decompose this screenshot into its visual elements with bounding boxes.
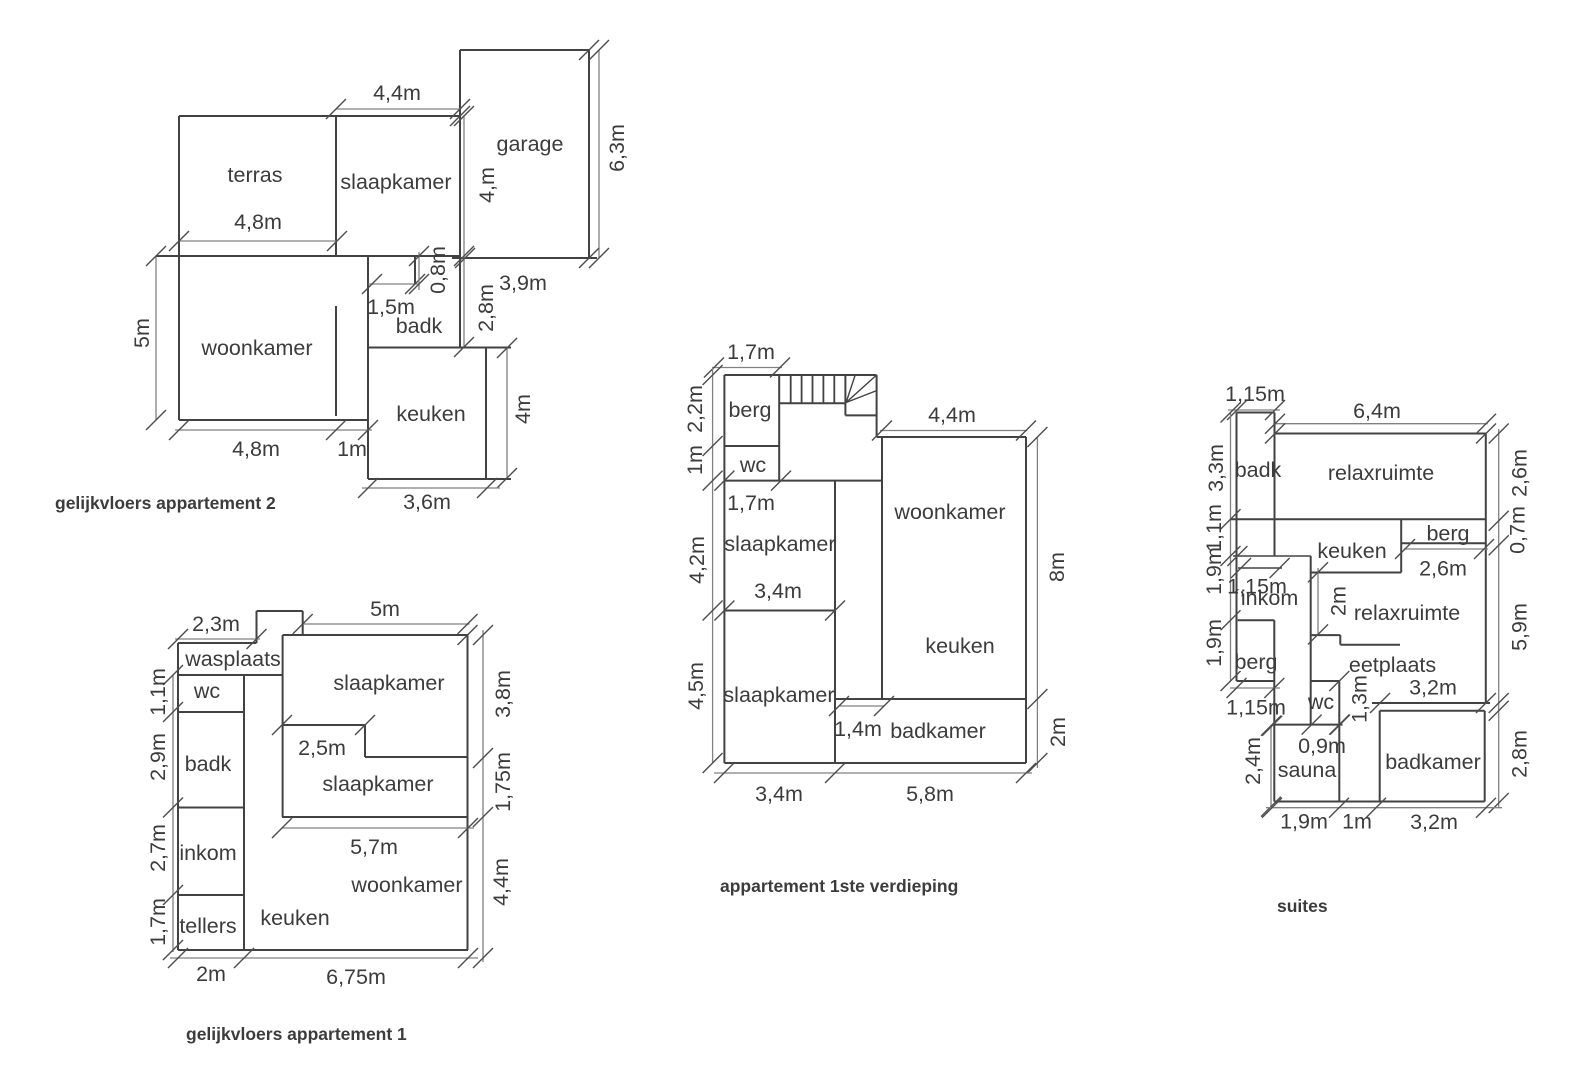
wall: wc top xyxy=(1311,680,1340,682)
svg-text:1,4m: 1,4m xyxy=(834,717,882,741)
svg-text:4,m: 4,m xyxy=(475,167,499,203)
svg-text:6,4m: 6,4m xyxy=(1353,399,1401,423)
wall: inkom bottom xyxy=(178,894,244,896)
wall: right outer wall xyxy=(467,635,469,950)
wall: inkom right / wc left xyxy=(1310,556,1312,725)
wall: keuken bottom xyxy=(368,478,511,480)
wall: keuken right / berg2 left xyxy=(1400,519,1402,572)
floor plan: suites xyxy=(1202,382,1532,916)
svg-text:keuken: keuken xyxy=(396,402,465,426)
wall: stair lower bottom xyxy=(845,414,876,416)
dimension line: 1,15m bottom xyxy=(1227,678,1285,698)
svg-text:6,3m: 6,3m xyxy=(605,124,629,172)
wall: step a xyxy=(1312,634,1341,636)
dimension line: 2,4m sauna xyxy=(1261,716,1281,817)
svg-text:0,7m: 0,7m xyxy=(1506,506,1530,554)
svg-text:1m: 1m xyxy=(683,445,707,475)
svg-text:0,8m: 0,8m xyxy=(426,246,450,294)
dimension line: 4,m + 2,8m xyxy=(454,106,474,357)
tick marks: 0,9m hashes xyxy=(1262,715,1350,736)
wall: notch right xyxy=(302,611,304,635)
svg-text:slaapkamer: slaapkamer xyxy=(723,683,834,707)
svg-text:sauna: sauna xyxy=(1278,758,1337,782)
svg-text:badk: badk xyxy=(1235,458,1282,482)
wall: badk+keuken left xyxy=(367,256,369,479)
svg-text:5,8m: 5,8m xyxy=(906,782,954,806)
svg-text:relaxruimte: relaxruimte xyxy=(1354,601,1460,625)
dimension line: 2,3m xyxy=(168,629,267,649)
dimension line: 4m keuken xyxy=(497,338,517,488)
wall: wasplaats top xyxy=(178,642,257,644)
svg-text:woonkamer: woonkamer xyxy=(200,336,312,360)
dimension line: left column dims xyxy=(163,665,183,960)
dimension line: 1,5m badk xyxy=(362,274,425,294)
dimension line: 3,6m keuken xyxy=(358,478,500,498)
wall: step c xyxy=(1340,644,1400,646)
svg-text:6,75m: 6,75m xyxy=(326,965,386,989)
svg-text:1,1m: 1,1m xyxy=(146,668,170,716)
wall: garage bottom xyxy=(452,257,597,259)
svg-text:1,9m: 1,9m xyxy=(1280,810,1328,834)
wall: badk bottom / keuken top xyxy=(368,347,511,349)
wall: terras+slaapkamer top xyxy=(179,115,460,117)
wall: corridor wall xyxy=(243,675,245,950)
wall: wc bottom long wall xyxy=(724,480,882,482)
svg-text:1,9m: 1,9m xyxy=(1202,547,1226,595)
svg-text:1,15m: 1,15m xyxy=(1226,696,1286,720)
svg-text:2,2m: 2,2m xyxy=(683,385,707,433)
svg-text:suites: suites xyxy=(1277,896,1328,916)
svg-text:relaxruimte: relaxruimte xyxy=(1328,461,1434,485)
dimension line: 2,6m berg2 xyxy=(1395,539,1494,559)
svg-text:garage: garage xyxy=(497,132,564,156)
svg-text:berg: berg xyxy=(1234,650,1277,674)
wall: keuken bottom xyxy=(1311,572,1401,574)
wall: badk left wall xyxy=(1236,413,1238,682)
svg-text:woonkamer: woonkamer xyxy=(893,500,1005,524)
svg-text:4,4m: 4,4m xyxy=(373,81,421,105)
wall: left outer wall xyxy=(177,643,179,950)
wall: keuken right xyxy=(485,348,487,479)
svg-text:berg: berg xyxy=(1426,522,1469,546)
svg-text:berg: berg xyxy=(728,398,771,422)
wall: inkom top xyxy=(1233,555,1311,557)
wall: garage top xyxy=(460,49,589,51)
svg-text:2m: 2m xyxy=(1327,586,1351,616)
dimension line: 1,15m top xyxy=(1227,400,1285,420)
svg-text:slaapkamer: slaapkamer xyxy=(322,772,433,796)
svg-text:keuken: keuken xyxy=(1317,539,1386,563)
svg-text:tellers: tellers xyxy=(179,914,236,938)
dimension line: 8m + 2m right xyxy=(1027,427,1047,773)
svg-text:wasplaats: wasplaats xyxy=(184,647,281,671)
dimension line: 4,4m woonkamer xyxy=(872,421,1036,441)
svg-text:2,8m: 2,8m xyxy=(474,284,498,332)
svg-text:badkamer: badkamer xyxy=(890,719,986,743)
wall: berg top xyxy=(1238,619,1275,621)
dimension line: 0,8m badk xyxy=(409,246,429,294)
dimension line: 6,4m xyxy=(1265,414,1496,434)
svg-text:2,3m: 2,3m xyxy=(192,612,240,636)
wall: right outer wall xyxy=(1025,437,1027,763)
svg-text:1,9m: 1,9m xyxy=(1202,619,1226,667)
wall: sauna top xyxy=(1274,724,1342,726)
dimension line: 3,4m + 5,8m bottom xyxy=(714,763,1036,783)
svg-text:1,7m: 1,7m xyxy=(727,340,775,364)
dimension line: right column dims xyxy=(1489,424,1509,814)
svg-text:2m: 2m xyxy=(196,962,226,986)
svg-text:1,75m: 1,75m xyxy=(491,752,515,812)
wall: badkamer left xyxy=(1379,711,1381,802)
wall: wc right / sauna right xyxy=(1338,681,1340,802)
dimension line: 5m left xyxy=(146,246,166,430)
tick marks: 1,7m mid hashes xyxy=(714,471,791,491)
svg-text:appartement 1ste verdieping: appartement 1ste verdieping xyxy=(720,876,958,896)
wall: badkamer top xyxy=(835,698,1026,700)
svg-text:2,8m: 2,8m xyxy=(1508,730,1532,778)
dimension line: bottom dims xyxy=(1262,798,1502,818)
svg-text:4,2m: 4,2m xyxy=(685,536,709,584)
wall: bottom outer wall xyxy=(1274,801,1484,803)
wall: relaxruimte top xyxy=(1275,433,1486,435)
wall: eetplaats bottom 3,2m xyxy=(1372,702,1490,704)
wall: wc bottom xyxy=(178,711,244,713)
wall: woonkamer top long wall xyxy=(156,255,460,257)
svg-text:badk: badk xyxy=(185,752,232,776)
dimension line: left column dims xyxy=(1221,403,1241,692)
wall: notch left xyxy=(256,611,258,643)
tick marks: relax top corner hashes xyxy=(1265,424,1496,444)
stair treads xyxy=(791,375,835,403)
svg-text:3,6m: 3,6m xyxy=(403,490,451,514)
svg-text:4,4m: 4,4m xyxy=(928,403,976,427)
wall: woonkamer/keuken left xyxy=(881,437,883,699)
svg-text:wc: wc xyxy=(739,453,767,477)
svg-text:4m: 4m xyxy=(511,394,535,424)
dimension line: 5,7m xyxy=(272,818,478,838)
svg-text:gelijkvloers appartement 1: gelijkvloers appartement 1 xyxy=(186,1024,407,1044)
svg-text:5m: 5m xyxy=(130,318,154,348)
wall: left outer wall xyxy=(723,375,725,763)
svg-text:3,2m: 3,2m xyxy=(1409,676,1457,700)
floor plan: gelijkvloers appartement 2 xyxy=(55,40,629,514)
svg-text:eetplaats: eetplaats xyxy=(1349,653,1436,677)
svg-text:3,2m: 3,2m xyxy=(1410,810,1458,834)
dimension line: 1,4m xyxy=(829,696,894,716)
wall: bottom outer wall xyxy=(178,949,468,951)
wall: slaapkamer top xyxy=(283,634,468,636)
svg-text:1,3m: 1,3m xyxy=(1348,675,1372,723)
svg-text:woonkamer: woonkamer xyxy=(350,873,462,897)
wall: slaapkamer left xyxy=(282,635,284,817)
wall: woonkamer stub wall xyxy=(335,306,337,416)
svg-text:4,5m: 4,5m xyxy=(684,662,708,710)
stair winder fan xyxy=(846,375,877,403)
wall: stair right edge xyxy=(876,375,878,437)
tick marks: plan1 corners xyxy=(450,40,599,268)
dimension line: bottom dims xyxy=(168,948,478,968)
wall: corridor wall xyxy=(834,481,836,763)
wall: badkamer top xyxy=(1380,710,1485,712)
svg-text:´inkom: ´inkom xyxy=(1234,586,1299,610)
svg-text:3,3m: 3,3m xyxy=(1204,444,1228,492)
wall: notch top xyxy=(257,610,303,612)
wall: step bottom xyxy=(365,756,468,758)
wall: berg/wc divider xyxy=(724,445,779,447)
floor plan: gelijkvloers appartement 1 xyxy=(146,597,515,1044)
dimension line: left column dims xyxy=(703,365,723,773)
wall: wasplaats bottom xyxy=(178,674,283,676)
svg-text:inkom: inkom xyxy=(179,841,236,865)
wall: berg2 bottom xyxy=(1401,542,1486,544)
tick marks: 1,15m mid hashes xyxy=(1227,546,1289,578)
wall: garage right xyxy=(588,50,590,258)
dimension line: 4,8m upper xyxy=(169,231,347,251)
wall: garage left + badk right xyxy=(459,50,461,347)
svg-text:4,8m: 4,8m xyxy=(234,210,282,234)
svg-text:8m: 8m xyxy=(1045,552,1069,582)
svg-text:slaapkamer: slaapkamer xyxy=(333,671,444,695)
svg-text:gelijkvloers appartement 2: gelijkvloers appartement 2 xyxy=(55,493,276,513)
wall: woonkamer bottom xyxy=(179,419,368,421)
svg-text:0,9m: 0,9m xyxy=(1298,734,1346,758)
svg-text:wc: wc xyxy=(1307,690,1335,714)
dimension line: 4,8m + 1m bottom xyxy=(169,420,378,440)
wall: berg right / sauna left xyxy=(1273,620,1275,801)
svg-text:slaapkamer: slaapkamer xyxy=(724,532,835,556)
svg-text:slaapkamer: slaapkamer xyxy=(340,170,451,194)
wall: badk bottom xyxy=(178,807,244,809)
svg-text:2,6m: 2,6m xyxy=(1508,449,1532,497)
wall: woonkamer top xyxy=(877,436,1026,438)
dimension line: 2m relax xyxy=(1308,562,1328,644)
wall: 1,15m mid dim line xyxy=(1238,567,1282,569)
svg-text:1,7m: 1,7m xyxy=(146,898,170,946)
svg-text:keuken: keuken xyxy=(925,634,994,658)
tick marks: plan2 corners xyxy=(272,625,478,735)
wall: step b xyxy=(1339,635,1341,645)
dimension line: right column dims xyxy=(473,625,493,968)
svg-text:2m: 2m xyxy=(1046,717,1070,747)
wall: badk right xyxy=(1274,413,1276,557)
dimension line: 6,3m garage xyxy=(589,40,609,268)
svg-text:1,1m: 1,1m xyxy=(1202,504,1226,552)
svg-text:3,9m: 3,9m xyxy=(499,271,547,295)
dimension line: 4,4m top xyxy=(326,99,470,119)
svg-text:4,8m: 4,8m xyxy=(232,437,280,461)
svg-text:wc: wc xyxy=(193,679,221,703)
tick marks: 1,3m hashes xyxy=(1329,671,1349,735)
wall: badk top xyxy=(1237,412,1275,414)
svg-text:keuken: keuken xyxy=(260,906,329,930)
wall: right outer wall xyxy=(1485,434,1487,704)
svg-text:2,6m: 2,6m xyxy=(1419,557,1467,581)
wall: terras+woonkamer left xyxy=(178,116,180,420)
svg-text:3,4m: 3,4m xyxy=(755,782,803,806)
svg-text:2,5m: 2,5m xyxy=(298,736,346,760)
wall: slaapkamer2 bottom xyxy=(282,816,468,818)
svg-text:3,8m: 3,8m xyxy=(491,670,515,718)
floor plan: appartement 1ste verdieping xyxy=(683,340,1070,896)
tick marks: 3,2m top hashes xyxy=(1370,693,1496,713)
svg-text:5,7m: 5,7m xyxy=(350,835,398,859)
svg-text:2,4m: 2,4m xyxy=(1241,737,1265,785)
svg-text:5,9m: 5,9m xyxy=(1508,603,1532,651)
wall: berg bottom xyxy=(1237,680,1275,682)
wall: terras/slaapkamer divider xyxy=(335,116,337,256)
wall: stairs mid line xyxy=(779,402,845,404)
svg-text:3,4m: 3,4m xyxy=(754,579,802,603)
wall: bottom outer wall xyxy=(724,762,1026,764)
svg-text:2,9m: 2,9m xyxy=(146,733,170,781)
wall: badkamer right xyxy=(1484,711,1486,802)
wall: berg right xyxy=(778,375,780,481)
wall: top wall xyxy=(724,374,876,376)
wall: step right xyxy=(364,725,366,757)
svg-text:1m: 1m xyxy=(337,437,367,461)
svg-text:1,15m: 1,15m xyxy=(1225,382,1285,406)
wall: stair winder left edge xyxy=(844,375,846,415)
svg-text:5m: 5m xyxy=(370,597,400,621)
svg-text:badkamer: badkamer xyxy=(1385,750,1481,774)
wall: slaapkamer divider 3,4m xyxy=(724,610,835,612)
svg-text:4,4m: 4,4m xyxy=(489,858,513,906)
wall: 2,5m step top xyxy=(282,724,365,726)
svg-text:1m: 1m xyxy=(1342,810,1372,834)
svg-text:badk: badk xyxy=(396,314,443,338)
dimension line: 1,7m top xyxy=(704,358,790,378)
wall: relax bottom long wall xyxy=(1231,518,1486,520)
svg-text:2,7m: 2,7m xyxy=(146,824,170,872)
svg-text:terras: terras xyxy=(228,163,283,187)
svg-text:1,7m: 1,7m xyxy=(727,491,775,515)
wall: badk door wall 0,8m xyxy=(414,256,416,284)
dimension line: 5m top xyxy=(293,614,478,634)
tick marks: 3,4m divider hashes xyxy=(714,601,845,621)
